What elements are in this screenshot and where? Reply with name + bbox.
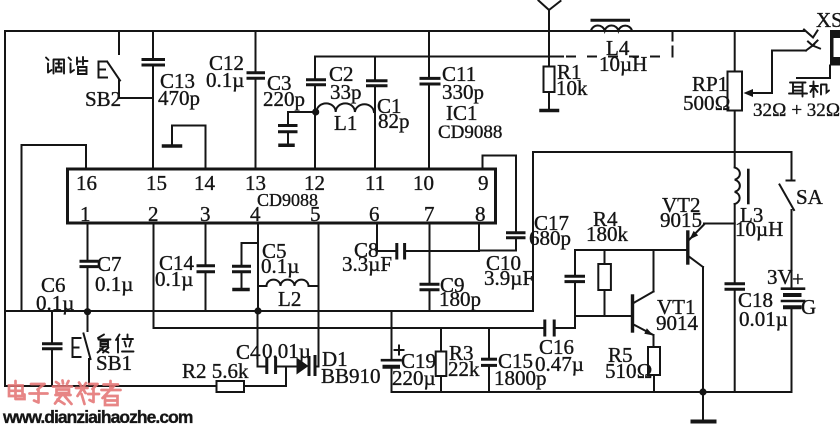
label earphone (er) glyph xyxy=(789,83,807,97)
wire pin16 to rail A xyxy=(22,145,87,311)
switch SA xyxy=(791,152,793,180)
capacitor C13 xyxy=(152,31,154,58)
capacitor C5 with ground xyxy=(242,243,259,265)
svg-text:82p: 82p xyxy=(378,109,410,133)
svg-text:180k: 180k xyxy=(586,222,629,246)
ground at pin 14 xyxy=(172,126,206,170)
wire ground rail xyxy=(392,391,792,393)
inductor L4 xyxy=(591,25,632,30)
svg-text:10k: 10k xyxy=(556,76,588,100)
resistor R3 xyxy=(440,328,442,352)
svg-text:510Ω: 510Ω xyxy=(605,359,653,383)
label earphone (ji) glyph xyxy=(810,82,829,98)
svg-text:10µH: 10µH xyxy=(599,52,647,76)
wire dashed tap line xyxy=(567,56,672,58)
capacitor C19 (electrolytic) xyxy=(391,311,393,359)
svg-text:11: 11 xyxy=(365,171,385,195)
capacitor C12/C3 xyxy=(255,31,257,71)
capacitor C8 xyxy=(377,223,396,251)
wire bottom-left rail to R2 xyxy=(5,385,217,387)
potentiometer RP1 xyxy=(734,31,736,72)
inductor L1 xyxy=(317,103,375,112)
capacitor C1 xyxy=(374,57,376,80)
svg-text:9015: 9015 xyxy=(660,208,702,232)
wire rail B right segment xyxy=(556,327,576,329)
resistor R1 xyxy=(544,67,555,93)
antenna xyxy=(539,1,561,67)
svg-text:0.1µ: 0.1µ xyxy=(36,291,74,315)
svg-text:0.1µ: 0.1µ xyxy=(206,68,244,92)
node pin4 / rail A xyxy=(254,307,261,314)
capacitor C17 xyxy=(574,250,576,275)
label tuning (xie) glyph xyxy=(69,58,75,73)
svg-text:9: 9 xyxy=(478,171,489,195)
svg-text:9014: 9014 xyxy=(656,311,699,335)
svg-text:SB2: SB2 xyxy=(85,87,121,111)
svg-text:CD9088: CD9088 xyxy=(438,122,502,143)
wire pin 5 / D1 line xyxy=(318,223,320,367)
switch SB1 xyxy=(87,312,89,331)
svg-text:16: 16 xyxy=(76,171,97,195)
label reset (fu) glyph xyxy=(98,335,111,353)
capacitor C9 xyxy=(429,223,431,283)
svg-text:3.3µF: 3.3µF xyxy=(342,252,392,276)
varactor D1 BB910 xyxy=(297,358,309,375)
capacitor C10 xyxy=(479,239,516,251)
svg-text:SB1: SB1 xyxy=(96,351,132,375)
svg-text:220p: 220p xyxy=(263,87,305,111)
capacitor C18 xyxy=(726,282,744,285)
svg-text:0.1µ: 0.1µ xyxy=(95,272,133,296)
wire rail B left segment xyxy=(154,223,545,328)
svg-text:3.9µF: 3.9µF xyxy=(484,266,534,290)
wiper arrow of RP1 xyxy=(744,89,754,97)
watermark char dian xyxy=(9,381,25,399)
svg-text:6: 6 xyxy=(369,202,380,226)
jack XS body xyxy=(830,30,840,66)
capacitor C6 xyxy=(51,311,53,342)
op-amp IC1 CD9088 body xyxy=(68,169,496,223)
svg-text:3: 3 xyxy=(200,202,211,226)
svg-text:10: 10 xyxy=(413,171,434,195)
transistor VT2 (9015) xyxy=(686,232,689,263)
svg-text:500Ω: 500Ω xyxy=(683,91,731,115)
svg-text:10µH: 10µH xyxy=(735,217,783,241)
wire amp box top edge xyxy=(533,151,792,153)
node VT2 collector / ground rail xyxy=(699,388,706,395)
watermark char zhe xyxy=(102,381,121,405)
svg-text:www.dianziaihaozhe.com: www.dianziaihaozhe.com xyxy=(2,407,193,426)
capacitor bypass at L1 with ground xyxy=(288,112,316,124)
svg-text:2: 2 xyxy=(148,202,159,226)
watermark char hao xyxy=(76,383,99,405)
jack XS contacts xyxy=(804,30,818,38)
node pin12/L1 junction xyxy=(312,108,319,115)
svg-text:220µ: 220µ xyxy=(392,366,436,390)
svg-text:+: + xyxy=(792,267,804,291)
wire pin 4 stub xyxy=(257,223,259,311)
svg-text:CD9088: CD9088 xyxy=(257,190,318,210)
svg-text:8: 8 xyxy=(475,202,486,226)
wire pin8 stub xyxy=(478,223,480,251)
svg-text:1800p: 1800p xyxy=(494,366,547,390)
resistor R4 xyxy=(604,250,606,264)
svg-text:G: G xyxy=(801,295,816,319)
svg-text:680p: 680p xyxy=(529,226,571,250)
watermark char zi xyxy=(30,384,48,403)
svg-text:1: 1 xyxy=(80,202,91,226)
resistor R5 xyxy=(648,347,660,375)
svg-text:L1: L1 xyxy=(334,111,357,135)
svg-text:SA: SA xyxy=(796,185,824,209)
wire C4 branch from node xyxy=(258,312,267,367)
switch SB2 xyxy=(118,31,120,54)
battery 3V xyxy=(782,287,804,290)
wire amp box left edge xyxy=(532,152,534,311)
svg-text:0.01µ: 0.01µ xyxy=(739,307,788,331)
capacitor C7 xyxy=(87,223,89,260)
svg-text:7: 7 xyxy=(424,202,435,226)
svg-text:32Ω + 32Ω: 32Ω + 32Ω xyxy=(753,100,840,121)
label reset (wei) glyph xyxy=(116,335,134,353)
capacitor C11 xyxy=(428,31,430,77)
capacitor C14 xyxy=(205,223,207,264)
svg-text:L2: L2 xyxy=(278,287,301,311)
wire pin 12 stub xyxy=(314,112,316,169)
watermark char ai xyxy=(53,381,72,405)
svg-text:14: 14 xyxy=(194,171,216,195)
capacitor C15 xyxy=(488,328,490,358)
inductor L2 xyxy=(258,285,267,287)
wire left border xyxy=(4,31,6,386)
svg-text:R2 5.6k: R2 5.6k xyxy=(182,359,249,383)
resistor R2 xyxy=(217,381,245,392)
capacitor C16 xyxy=(543,321,546,335)
ground main xyxy=(702,392,704,420)
capacitor C2 xyxy=(314,57,316,79)
svg-text:470p: 470p xyxy=(158,86,200,110)
svg-text:3V: 3V xyxy=(767,265,793,289)
svg-text:22k: 22k xyxy=(448,357,480,381)
label tuning (diao) glyph xyxy=(46,58,52,73)
inductor L3 xyxy=(735,168,740,205)
svg-text:0.1µ: 0.1µ xyxy=(261,254,299,278)
wire rail A (AGC bus) xyxy=(5,310,533,312)
svg-text:180p: 180p xyxy=(439,287,481,311)
wire tuned-circuit top line xyxy=(315,56,563,58)
svg-text:33p: 33p xyxy=(330,80,362,104)
transistor VT1 (9014) xyxy=(631,296,634,331)
svg-text:BB910: BB910 xyxy=(321,364,381,388)
svg-text:0.1µ: 0.1µ xyxy=(155,267,193,291)
wire top rail xyxy=(5,30,804,32)
svg-text:15: 15 xyxy=(146,171,167,195)
node pin1 / rail A xyxy=(84,308,91,315)
svg-text:0.01µ: 0.01µ xyxy=(262,339,311,363)
capacitor C4 xyxy=(265,359,268,373)
svg-text:XS: XS xyxy=(816,8,840,32)
